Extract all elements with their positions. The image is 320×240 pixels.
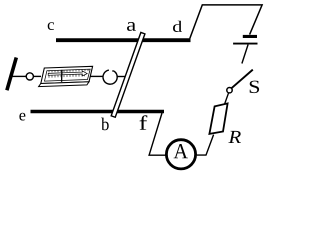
ammeter circle <box>166 140 195 169</box>
label R <box>228 131 241 143</box>
ring <box>26 73 33 80</box>
hook <box>103 70 117 84</box>
wire spring scale to hook <box>90 75 103 77</box>
label b <box>101 118 109 131</box>
spring scale outer case <box>41 66 93 83</box>
wire ammeter to rail end f <box>149 113 166 155</box>
battery positive plate (long thin) <box>233 43 257 45</box>
spring scale arrow shaft <box>48 71 87 76</box>
label a <box>127 22 136 31</box>
rail cd (top) <box>56 38 191 42</box>
spring scale pointer needle <box>61 70 63 82</box>
wire hook to rod <box>117 76 126 78</box>
ammeter letter A <box>174 144 188 158</box>
wire d to battery <box>190 5 262 39</box>
rod ab <box>111 32 145 117</box>
wire battery to switch contact <box>242 45 248 64</box>
wire ring to spring scale <box>34 75 41 77</box>
label c <box>48 22 54 30</box>
label e <box>19 113 25 121</box>
spring scale graduation ticks <box>49 69 88 78</box>
wire wall to ring <box>11 75 26 77</box>
rail ef (bottom) <box>31 110 165 114</box>
wire switch to resistor <box>225 93 229 105</box>
battery negative plate (short thick) <box>243 35 257 38</box>
wire resistor to ammeter <box>197 135 214 156</box>
spring scale bottom depth edge <box>39 82 89 87</box>
wall anchor (left) <box>7 58 16 91</box>
spring scale inner face <box>45 69 91 81</box>
label f <box>140 115 148 130</box>
label d <box>173 21 182 32</box>
switch S pivot circle <box>227 88 232 93</box>
resistor R body <box>209 103 227 133</box>
label S <box>250 81 259 94</box>
switch S lever <box>232 70 253 89</box>
